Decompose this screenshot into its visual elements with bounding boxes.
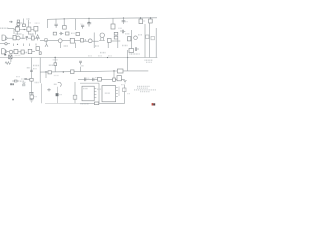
- capacitor C15 on rail: [30, 70, 33, 71]
- capacitor C12: [87, 23, 91, 27]
- wire row C 3: [32, 51, 35, 53]
- dark pads: [10, 83, 12, 85]
- label text x49-55 y65: [49, 64, 54, 66]
- wire drop A3: [35, 31, 37, 35]
- capacitor C10: [55, 24, 58, 28]
- resistor R24 on bottom rail: [94, 102, 98, 105]
- wire vertical x55.5: [54, 58, 56, 72]
- resistor R12 top: [76, 32, 80, 35]
- logo dark mark: [153, 103, 155, 105]
- parts list text line4: [140, 91, 150, 93]
- wire drop mid1: [45, 40, 47, 44]
- wire drop mid2: [60, 43, 62, 48]
- transformer T0 bottom: [29, 92, 33, 95]
- wire vertical x31.4: [30, 58, 32, 101]
- faint mark x23: [23, 84, 25, 86]
- capacitor C16: [24, 79, 30, 80]
- capacitor C17: [85, 78, 86, 82]
- wire mid rail y57.5: [0, 57, 157, 59]
- label text x125-130: [125, 33, 130, 35]
- label text x21-24: [21, 78, 24, 80]
- node row A: [24, 29, 25, 30]
- LED DL1: [56, 93, 59, 96]
- tick x23.5: [23, 44, 25, 47]
- wire x83-88: [84, 39, 89, 41]
- label text x34-39: [35, 82, 39, 84]
- label text row A below right: [29, 33, 34, 35]
- tick x13.7: [13, 44, 15, 47]
- label text below rail x53: [53, 59, 58, 61]
- label text row A above: [16, 22, 22, 24]
- transformer T1: [82, 86, 94, 101]
- capacitor C11: [81, 25, 84, 28]
- node y72 x114: [113, 70, 114, 71]
- capacitor C2: [26, 36, 28, 40]
- label marks x138-142: [138, 34, 142, 36]
- transistor Q2: [16, 36, 20, 40]
- resistor R1: [16, 26, 19, 29]
- label text above rail x130: [129, 53, 139, 55]
- wire row A bus: [14, 29, 38, 31]
- label text x27-30: [27, 67, 30, 69]
- wire stub C12: [88, 18, 90, 22]
- label text x86-89 y78: [86, 77, 89, 79]
- inductor L2 on rail: [117, 69, 123, 73]
- capacitor C7: [122, 30, 125, 34]
- wire rail y72: [40, 71, 148, 72]
- label marks x20-24: [20, 80, 24, 82]
- antenna arrow input: [9, 21, 13, 23]
- label text below rail x145: [145, 59, 153, 61]
- label text y23 x28: [29, 22, 32, 24]
- diode D4: [47, 88, 51, 91]
- wire row B mid2: [28, 37, 31, 39]
- resistor R17 on rail: [30, 78, 33, 81]
- resistor R6: [13, 35, 16, 40]
- node J1: [64, 18, 65, 19]
- node C12 dot: [88, 22, 90, 24]
- transistor Q1 top: [17, 20, 19, 22]
- resistor R3: [16, 27, 20, 31]
- wire stub C10: [55, 19, 57, 24]
- crystal X1: [129, 49, 134, 53]
- wire vertical x149.5: [149, 23, 151, 58]
- wire drop A1: [16, 31, 18, 34]
- ground x125: [123, 81, 127, 83]
- label text top-left: [0, 27, 9, 29]
- label text below rail x145 line2: [146, 61, 152, 63]
- label text x95-99: [95, 45, 99, 47]
- wire stub x23.5: [23, 19, 25, 28]
- wire vertical x124.7: [124, 85, 126, 104]
- label text x16-20 y76.5: [16, 76, 20, 78]
- transistor Q8: [134, 36, 138, 40]
- label marks x25-27: [25, 52, 28, 54]
- jack D1: [2, 35, 6, 40]
- logo red mark: [152, 103, 154, 105]
- ground marks x22-26: [22, 82, 25, 83]
- component small box x14-17: [12, 80, 19, 82]
- node rail2: [107, 57, 108, 58]
- wire drop x108: [107, 42, 109, 48]
- speaker triangle D1: [6, 36, 8, 40]
- wire stub C14: [123, 18, 125, 24]
- resistor R22: [111, 24, 115, 29]
- inductor L1: [128, 37, 131, 41]
- wire drop x117.5: [117, 39, 119, 48]
- diode D3 marks: [59, 32, 64, 35]
- label text x59-62 y94.5: [59, 94, 62, 96]
- label text x64-68: [64, 45, 68, 47]
- transistor Q3 faint: [44, 38, 47, 41]
- wire vertical x75: [74, 82, 76, 103]
- label text x122-127: [122, 45, 128, 47]
- wire x111-120: [111, 40, 120, 42]
- label text above rail x100: [100, 52, 106, 54]
- transistor Q7: [100, 33, 104, 37]
- wire drop mid3: [75, 43, 77, 48]
- label text above rail x88: [88, 55, 92, 57]
- wire vertical x156.2: [155, 28, 157, 58]
- resistor R25: [73, 95, 77, 99]
- wire mid rail x74-80: [74, 40, 80, 42]
- marks x117-120 y86-96: [118, 87, 120, 97]
- wire vertical x99: [98, 83, 100, 103]
- label text right of R18: [34, 96, 37, 98]
- transistor Q5: [58, 39, 62, 43]
- wire vertical x127.6: [127, 50, 129, 71]
- transistor Q4: [63, 26, 67, 30]
- node rail3: [127, 57, 128, 58]
- label text x33-40 y65: [33, 65, 40, 67]
- resistor R32: [146, 35, 149, 39]
- parts list text line1: [137, 85, 150, 87]
- tick x36: [35, 44, 37, 46]
- capacitor C18: [93, 78, 94, 81]
- marks x121-124 y84.5: [121, 84, 124, 86]
- pot wiper marks: [45, 44, 48, 47]
- capacitor C6 stack: [114, 32, 118, 39]
- capacitor C8: [135, 47, 139, 51]
- marks on bottom rail x80-90: [81, 103, 90, 105]
- lamp circle left: [5, 43, 7, 45]
- label text x118-122 y28: [118, 27, 121, 29]
- transistor Q6: [88, 39, 92, 43]
- wire vertical x41.5: [41, 84, 43, 104]
- wire rail left y43.7: [0, 43, 10, 45]
- potentiometer triangle: [36, 35, 39, 38]
- wire stub R20: [75, 19, 77, 31]
- jack D2: [2, 49, 6, 54]
- parts list text line2: [137, 87, 148, 89]
- tick x29.5: [29, 44, 31, 47]
- marks x54-57 y84: [54, 83, 57, 85]
- node tick x17.5: [17, 44, 18, 45]
- resistor R15: [28, 49, 32, 53]
- wire stub x11: [10, 59, 12, 62]
- wire drop x94: [93, 33, 95, 49]
- resistor R26: [123, 88, 126, 92]
- wire input corner: [8, 29, 14, 34]
- resistor R19 on rail: [48, 71, 52, 74]
- label marks x97-101 y89: [97, 88, 101, 90]
- cluster x78-84 y60-68: [79, 61, 82, 64]
- wire stub R30: [140, 18, 142, 24]
- label text x95-100 y77.6: [95, 77, 100, 79]
- T1 secondary ticks: [94, 89, 96, 98]
- wire stub R22: [112, 18, 114, 24]
- T2 secondary ticks: [116, 88, 118, 97]
- label text near C14: [125, 21, 127, 23]
- wire x120 entry: [120, 30, 122, 32]
- label text near R30: [143, 20, 146, 22]
- resistor R27 on rail: [98, 77, 102, 81]
- speaker triangle D2: [5, 50, 7, 54]
- wire rail y79.3: [78, 78, 125, 80]
- capacitor C19 box: [117, 76, 121, 81]
- emitter marks Q7: [99, 37, 105, 40]
- label text above rail x98: [98, 55, 102, 57]
- resistor R11 top: [66, 32, 70, 35]
- resistor R5: [34, 26, 38, 31]
- wire drop x46: [45, 72, 47, 78]
- wire vertical x145: [144, 24, 146, 58]
- node y72 x63: [63, 71, 64, 72]
- resistor R33: [151, 36, 154, 39]
- resistor R18: [30, 95, 33, 99]
- label mark C11: [80, 23, 83, 25]
- wire row C: [7, 51, 14, 53]
- wire bottom rail y103.3: [45, 102, 80, 104]
- resistor R4: [27, 27, 31, 31]
- transistor Q9: [9, 50, 13, 54]
- wire vertical x57.5: [57, 87, 59, 104]
- resistor R16: [36, 47, 39, 51]
- wire stub Q4: [63, 19, 65, 26]
- wire drop x80.5 to rail71: [80, 67, 82, 72]
- wire stub R31: [150, 18, 152, 23]
- resistor R30: [139, 19, 143, 24]
- box x40 y52: [39, 52, 41, 55]
- wire stub x28.5: [28, 20, 30, 27]
- wire mid rail x62-70: [62, 40, 70, 42]
- wire mid rail row B x40-58: [40, 39, 58, 41]
- resistor R9: [21, 50, 24, 54]
- resistor R8: [14, 50, 18, 54]
- label marks x30-34: [30, 34, 34, 36]
- wire row C 2: [18, 51, 21, 53]
- resistor R13: [80, 39, 83, 43]
- wire row B left: [7, 37, 13, 39]
- resistor R31: [149, 19, 153, 23]
- wire drop A2: [28, 31, 30, 34]
- label text x15-21 y55: [15, 54, 21, 56]
- capacitor C14: [122, 21, 126, 22]
- transformer T2: [102, 86, 116, 102]
- wire row B right: [34, 38, 40, 41]
- resistor R14: [107, 39, 111, 43]
- node rail1: [55, 57, 56, 58]
- node mid: [46, 40, 47, 41]
- node J2: [88, 18, 89, 19]
- resistor R10: [70, 38, 74, 43]
- node J4: [140, 17, 141, 18]
- resistor zigzag: [5, 62, 11, 65]
- label text inside T2: [105, 92, 110, 94]
- label text y23 x35: [35, 22, 40, 24]
- node J5: [150, 17, 151, 18]
- capacitor C4 top: [53, 32, 56, 35]
- dark dots x4-6: [4, 54, 6, 55]
- diode bridge symbol: [9, 55, 12, 59]
- transistor Q1 circle: [17, 23, 20, 26]
- label text x33-36 y68.7: [33, 68, 37, 70]
- dot x13 y99: [12, 99, 13, 101]
- component x54-57 y62-66: [54, 63, 57, 66]
- wire vertical x114 drop: [113, 71, 115, 79]
- wire x92-99: [92, 40, 99, 42]
- label text inside T1: [83, 88, 88, 90]
- wire top supply rail: [48, 18, 158, 28]
- label text x127.6-130 y93.5: [127, 93, 130, 95]
- ground x31.4: [30, 100, 34, 102]
- label text x27: [27, 18, 31, 20]
- parts list text line3: [134, 89, 156, 91]
- label text row A below left: [16, 33, 22, 35]
- wire row B mid: [20, 34, 25, 39]
- transistor Q10: [58, 82, 61, 86]
- resistor R2: [22, 24, 25, 27]
- resistor R7: [32, 36, 35, 40]
- label text above rail x108: [108, 55, 112, 57]
- wire vertical x131.7: [131, 30, 133, 53]
- wire top link y83.2: [80, 82, 99, 84]
- label marks x81-84 y65: [81, 65, 84, 67]
- label marks x71-74: [71, 32, 75, 34]
- resistor R21 on rail: [71, 70, 75, 74]
- node J3: [123, 17, 124, 18]
- label text x54-59 y75.5: [54, 75, 59, 77]
- wire vertical x40.2: [39, 58, 41, 84]
- node y72 x46: [45, 71, 46, 72]
- resistor R23: [113, 78, 116, 81]
